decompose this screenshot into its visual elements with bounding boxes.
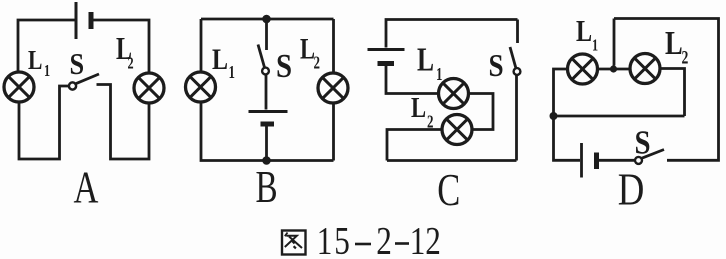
- wire D: top + right vertical + switch right contact: [614, 19, 719, 161]
- junction dot B bottom: [262, 156, 271, 165]
- svg-text:5: 5: [334, 219, 350, 259]
- svg-text:2: 2: [128, 55, 134, 73]
- wire C: right vertical lower: [515, 75, 518, 161]
- lamp L2 (D): [630, 54, 660, 84]
- svg-text:1: 1: [592, 37, 598, 55]
- switch S (B) pivot circle: [262, 68, 269, 75]
- svg-text:2: 2: [427, 113, 434, 133]
- switch S (D) pivot circle: [635, 157, 642, 164]
- wire B: left vertical upper: [200, 19, 203, 71]
- caption dash 1: [355, 243, 371, 246]
- label L2 (D): [665, 24, 688, 68]
- wire D: between lamps: [598, 68, 630, 71]
- battery C long plate: [368, 48, 405, 51]
- svg-text:L: L: [411, 91, 426, 123]
- junction dot B top: [262, 15, 271, 24]
- wire D: L1 left, down to middle dot: [554, 69, 568, 113]
- wire D: battery to switch: [599, 159, 635, 162]
- svg-text:L: L: [576, 14, 592, 49]
- battery A long plate (+): [75, 2, 78, 39]
- svg-text:2: 2: [314, 54, 321, 74]
- junction dot D top: [610, 65, 617, 72]
- wire A: switch right contact down to bottom, up to L2: [97, 85, 150, 160]
- wire A: top-right + right vertical: [93, 20, 149, 72]
- label L1 (B): [212, 42, 235, 82]
- switch S (C) blade: [510, 47, 516, 69]
- svg-text:L: L: [417, 40, 434, 78]
- svg-text:1: 1: [317, 219, 333, 259]
- svg-text:S: S: [635, 123, 651, 161]
- battery D long plate: [580, 143, 583, 178]
- svg-text:2: 2: [682, 46, 689, 68]
- switch S (A) blade: [76, 74, 99, 84]
- wire C: L2 left to lower-left corner: [387, 130, 442, 161]
- wire D: riser to L2 right: [661, 69, 685, 117]
- svg-text:L: L: [300, 31, 315, 65]
- wire A: below L1, bottom-left, riser to switch: [19, 86, 69, 159]
- caption character 图: [282, 231, 306, 255]
- label L2 (C): [411, 91, 434, 132]
- lamp L1 (B): [186, 72, 216, 102]
- label L1 (C): [417, 40, 443, 85]
- wire D: middle wire: [554, 115, 685, 118]
- svg-text:1: 1: [410, 219, 426, 259]
- caption dash 2: [395, 242, 409, 245]
- svg-text:C: C: [437, 164, 460, 215]
- wire D: top wire down to junction dot: [613, 19, 616, 66]
- lamp L1 (D): [568, 54, 598, 84]
- label L2 (B): [300, 31, 320, 73]
- svg-text:L: L: [665, 24, 683, 62]
- svg-text:2: 2: [425, 219, 441, 259]
- svg-text:L: L: [28, 46, 42, 76]
- lamp L2 (C): [442, 115, 472, 145]
- switch S (D) blade: [642, 150, 664, 159]
- switch S (B) blade: [258, 45, 265, 69]
- lamp L2 (A): [134, 73, 164, 103]
- svg-text:B: B: [255, 161, 277, 213]
- svg-text:S: S: [70, 47, 85, 81]
- wire C: L1 right loop down to L2 right: [469, 94, 493, 130]
- svg-text:1: 1: [229, 63, 236, 83]
- switch S (A) pivot circle: [69, 82, 76, 89]
- lamp L1 (A): [4, 72, 34, 102]
- lamp L1 (C): [439, 79, 469, 109]
- svg-text:1: 1: [436, 65, 443, 85]
- wire C: top + upper left vertical: [386, 20, 518, 48]
- svg-text:2: 2: [376, 219, 392, 259]
- wire C: battery down and right to L1: [386, 66, 438, 94]
- svg-text:1: 1: [44, 62, 50, 80]
- switch S (C) pivot circle: [514, 68, 521, 75]
- wire B: left vertical lower + bottom: [201, 103, 334, 161]
- wire B: top: [201, 18, 334, 21]
- svg-text:S: S: [489, 49, 504, 83]
- battery D short plate: [594, 153, 599, 170]
- caption text 15-2-12: [317, 219, 441, 259]
- wire C: bottom: [387, 159, 517, 162]
- battery B short plate: [261, 122, 275, 127]
- wire A: top-left + left vertical: [18, 20, 75, 71]
- junction dot D left: [550, 112, 558, 120]
- svg-text:S: S: [276, 47, 292, 85]
- battery A short plate (-): [89, 12, 94, 29]
- label L1 (D): [576, 14, 598, 55]
- lamp L2 (B): [318, 73, 348, 103]
- wire B: battery to bottom stub: [265, 127, 268, 161]
- svg-text:L: L: [212, 42, 228, 75]
- battery B long plate: [249, 110, 288, 113]
- svg-text:A: A: [73, 162, 98, 213]
- wire B: switch upper stub: [265, 19, 268, 50]
- label L2 (A): [116, 32, 134, 73]
- label L1 (A): [28, 46, 50, 81]
- wire B: right vertical: [332, 19, 335, 161]
- battery C short plate: [378, 61, 395, 66]
- wire B: switch to battery stub: [265, 75, 268, 110]
- wire C: switch upper stub: [516, 20, 519, 44]
- wire D: left vertical lower + to battery: [554, 116, 581, 160]
- svg-text:D: D: [618, 165, 645, 216]
